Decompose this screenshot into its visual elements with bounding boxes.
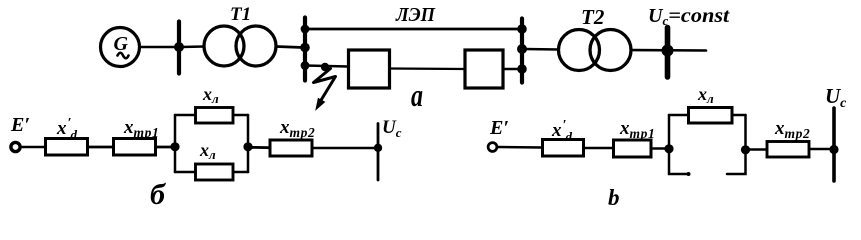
wire B2 to bus3 [503,68,522,71]
wire top branch left (б) [175,114,195,117]
wire bus1 to T1 [181,45,204,48]
wire bus3 to T2 [524,48,559,51]
node left (в) [664,144,673,153]
junction dot bus2 top [301,25,310,34]
svg-text:xл: xл [202,84,219,106]
wire node to xtr2 (в) [746,148,768,151]
svg-text:xтр1: xтр1 [619,118,655,141]
wire xd to xtr1 (б) [88,146,113,149]
wire bottom branch left (б) [175,171,195,174]
wire B1 to B2 [390,67,465,70]
resistor xл (в) [689,108,733,124]
junction dot infinite bus [662,45,674,57]
wire left riser (б) [174,115,177,172]
wire xtr1 to node (б) [156,146,175,149]
generator G [101,28,140,67]
wire right riser (б) [247,115,250,172]
wire line 1 (ЛЭП top circuit) [305,28,522,31]
wire top branch right (б) [233,114,248,117]
svg-text:xтр1: xтр1 [123,117,159,140]
wire right riser (в) [744,115,747,150]
resistor xтр2 (в) [767,142,809,158]
wire xtr2 to Uc bus (в) [809,148,834,151]
open branch stub left (в) [669,149,689,174]
label a [411,79,423,114]
wire T1 to bus2 [276,47,303,48]
svg-text:xтр2: xтр2 [279,117,315,140]
wire generator to bus1 [140,46,176,49]
junction dot bus2 middle [300,43,310,53]
svg-text:T1: T1 [230,4,251,25]
transformer T2 [559,30,600,71]
svg-text:E′: E′ [489,117,509,139]
svg-text:Uc: Uc [382,117,402,140]
node left (б) [170,142,179,151]
resistor xл top (б) [196,108,234,124]
node right (б) [243,142,252,151]
junction dot bus3 bottom [517,64,527,74]
svg-text:xл: xл [199,140,216,162]
node right (в) [741,145,750,154]
junction dot fault point [321,63,329,71]
node Uc (в) [829,145,838,154]
wire bus2 to box B1 (line 2 left segment) [305,66,348,67]
junction dot bus3 middle [517,44,527,54]
wire left riser (в) [668,115,671,149]
wire T2 to infinite bus [631,49,706,52]
bus 1 (generator bus) [177,22,181,74]
bus 2 (sending-end bus) [303,18,307,81]
svg-text:ЛЭП: ЛЭП [395,4,436,26]
wire top branch left (в) [669,114,688,117]
resistor x'd (б) [46,139,88,156]
generator tilde [118,53,129,59]
wire xtr1 to node (в) [651,147,669,150]
junction dot bus3 top [517,24,527,34]
svg-text:T2: T2 [581,5,605,29]
svg-text:Uc: Uc [825,84,847,111]
terminal E' (в) [488,143,497,152]
junction dot bus2 bottom [301,61,310,70]
infinite bus bar Uc [665,28,671,78]
node Uc (б) [374,144,382,152]
svg-text:xтр2: xтр2 [774,118,810,141]
resistor xл bottom (б) [196,164,234,180]
resistor xтр2 (б) [270,140,312,156]
svg-text:б: б [150,178,166,211]
svg-text:Uc=const: Uc=const [648,5,731,28]
resistor xтр1 (в) [614,140,652,157]
open branch stub right (в) [727,150,746,174]
wire top branch right (в) [732,114,746,117]
fault lightning arrow [314,69,336,102]
svg-text:xл: xл [697,84,714,106]
wire E' to xd (б) [21,146,46,149]
svg-text:a: a [411,79,423,114]
resistor xтр1 (б) [114,139,156,156]
box B1 (line section 1) [349,50,390,88]
transformer T1 [204,26,244,66]
junction dot bus1 [174,42,184,52]
svg-text:E′: E′ [10,114,30,136]
terminal E' (б) [11,142,20,151]
box B2 (line section 2) [465,50,503,88]
wire xtr2 to Uc bus (б) [312,147,378,150]
resistor x'd (в) [543,140,584,157]
bus Uc (в) [832,108,836,181]
bus 3 (receiving-end bus) [520,19,524,83]
wire E' to xd (в) [497,146,542,149]
bus Uc (б) [377,124,380,181]
wire node to xtr2 (б) [248,146,270,149]
wire bottom branch right (б) [233,171,248,174]
wire xd to xtr1 (в) [584,147,614,150]
svg-text:b: b [608,185,620,210]
